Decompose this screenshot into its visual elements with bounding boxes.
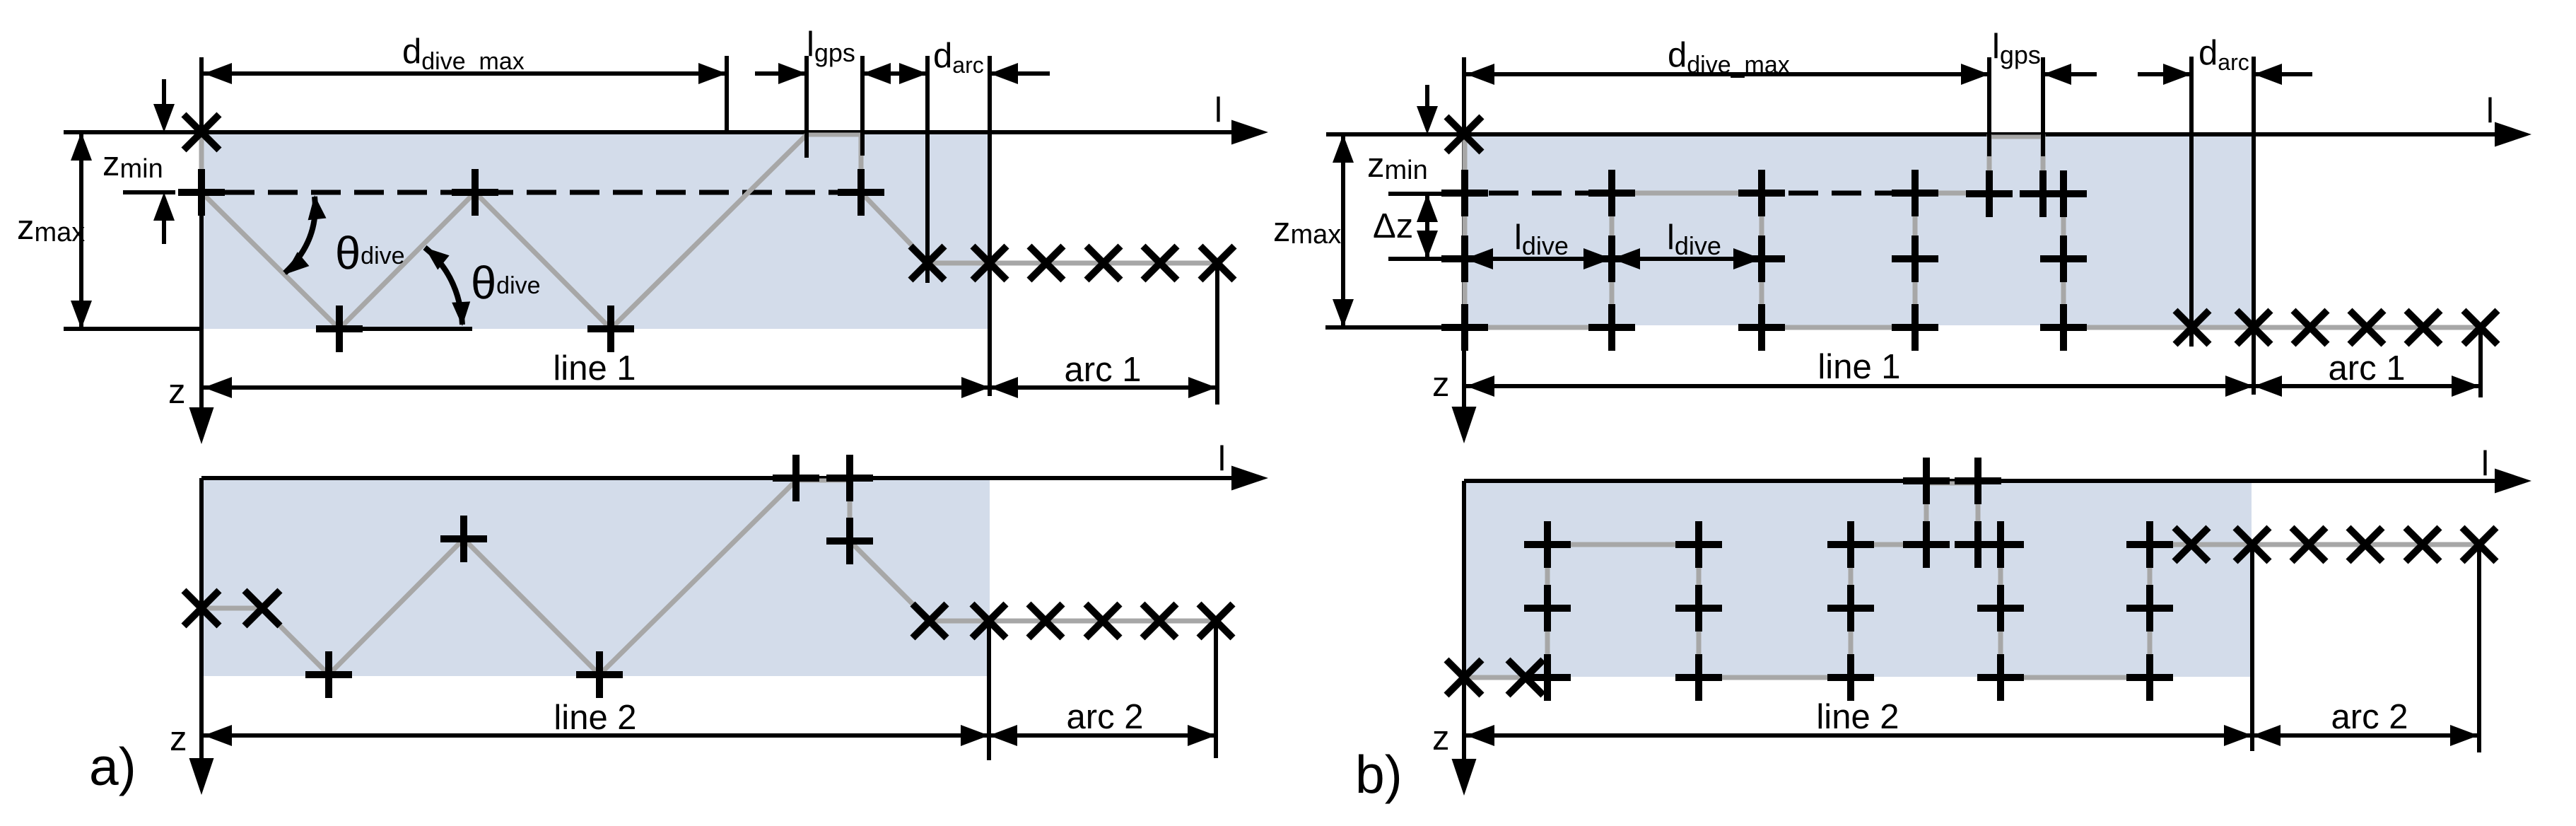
arc 1 drift path (gray, panel a): [927, 261, 1217, 266]
l-axis label (panel b bottom): [2481, 445, 2489, 483]
l-axis label (panel a bottom): [1218, 440, 1226, 478]
z_min dashed depth line (panel a top): [225, 190, 858, 195]
svg-text:zmin: zmin: [1367, 146, 1428, 185]
line 2 extent dimension (panel a bottom): [204, 725, 989, 746]
waypoint + gps surface 2 (panel a bottom): [826, 455, 873, 501]
line2/arc2 boundary line (panel a bottom): [987, 621, 991, 760]
svg-text:zmin: zmin: [103, 145, 163, 184]
d_arc right arrow (panel b top): [2254, 64, 2312, 85]
l_dive label 2 (panel b top): [1667, 219, 1721, 260]
l_gps label (panel b top): [1992, 28, 2041, 69]
arc 1 extent dimension (panel a top): [990, 377, 1217, 398]
waypoint + after gps descent (panel a bottom): [826, 518, 873, 564]
d_arc right boundary line (panel a top): [988, 56, 992, 396]
arc 2 extent dimension (panel b bottom): [2252, 725, 2478, 746]
svg-text:ddive_max: ddive_max: [1668, 36, 1790, 78]
z-axis label (panel a top): [168, 373, 186, 411]
svg-text:darc: darc: [933, 37, 984, 78]
d_dive_max tick (panel a top): [725, 56, 729, 134]
svg-text:zmax: zmax: [1273, 211, 1341, 250]
z-axis (panel a top): [189, 57, 214, 444]
delta-z label (panel b top): [1373, 207, 1413, 245]
waypoint + apex on z_min (panel a top): [452, 169, 498, 216]
shaded survey depth band (line 1, panel b): [1466, 136, 2254, 325]
svg-text:Δz: Δz: [1373, 207, 1413, 245]
delta-z depth tick line (panel b top): [1388, 257, 1492, 261]
d_arc left boundary line (panel a top): [925, 56, 930, 283]
z-axis (panel a bottom): [189, 478, 214, 795]
l_gps label (panel a top): [807, 25, 855, 67]
waypoint + apex (panel a bottom): [440, 516, 487, 562]
l-axis label (panel a top): [1214, 91, 1222, 129]
line 2 extent dimension (panel b bottom): [1466, 725, 2252, 746]
svg-text:arc 1: arc 1: [2329, 349, 2406, 388]
svg-text:l: l: [1218, 440, 1226, 478]
delta-z dimension arrows (panel b top): [1417, 194, 1438, 259]
d_dive_max label (panel a top): [402, 33, 525, 75]
svg-text:z: z: [170, 720, 187, 758]
panel label b): [1355, 745, 1403, 804]
line2/arc2 boundary line (panel b bottom): [2250, 545, 2254, 751]
svg-text:b): b): [1355, 745, 1403, 804]
l_gps right boundary line (panel a top): [860, 56, 865, 156]
waypoint + dive vertex 1 (panel a bottom): [305, 651, 352, 698]
d_arc left arrow (panel b top): [2138, 64, 2191, 85]
z-axis label (panel b top): [1432, 366, 1450, 404]
svg-text:lgps: lgps: [807, 25, 855, 67]
l_gps right boundary line (panel b top): [2041, 57, 2045, 156]
svg-text:z: z: [1432, 366, 1450, 404]
arc 1 extent dimension (panel b top): [2254, 376, 2480, 397]
l_dive dimension span 2 (panel b top): [1612, 248, 1762, 269]
line 1 label (panel a top): [553, 349, 636, 388]
arc 1 right boundary line (panel a top): [1215, 263, 1219, 405]
arc 1 label (panel b top): [2329, 349, 2406, 388]
d_arc label (panel b top): [2199, 34, 2249, 75]
z-axis label (panel b bottom): [1432, 719, 1450, 757]
svg-text:lgps: lgps: [1992, 28, 2041, 69]
svg-text:z: z: [1432, 719, 1450, 757]
l_gps left boundary line (panel a top): [804, 56, 809, 158]
svg-text:darc: darc: [2199, 34, 2249, 75]
arc 2 drift path (gray, panel a): [930, 619, 1216, 624]
z_min dashed depth line (panel b top): [1489, 191, 1915, 196]
z_max label (panel a top): [17, 209, 85, 248]
arc 2 extent dimension (panel a bottom): [989, 725, 1216, 746]
waypoint + dive vertex 2 (panel a top): [587, 306, 634, 352]
line 1 label (panel b top): [1817, 348, 1900, 386]
arc 2 right boundary line (panel a bottom): [1214, 621, 1218, 758]
angle reference line at dive vertex (panel a top): [320, 327, 472, 331]
l-axis (panel b top): [1326, 122, 2531, 147]
waypoint + gps surface 1 (panel a bottom): [773, 455, 819, 501]
svg-text:l: l: [2486, 92, 2494, 130]
z-axis label (panel a bottom): [170, 720, 187, 758]
waypoint + markers square-wave (panel b top): [1441, 170, 2087, 351]
svg-text:arc 2: arc 2: [1067, 698, 1144, 736]
d_arc right boundary line (panel b top): [2252, 57, 2256, 395]
waypoint + dive vertex 1 (panel a top): [316, 306, 363, 352]
arc 2 label (panel a bottom): [1067, 698, 1144, 736]
line 2 label (panel b bottom): [1816, 698, 1899, 736]
l-axis (panel a top): [64, 120, 1268, 145]
waypoint + markers square-wave (panel b bottom): [1524, 458, 2173, 701]
waypoint + after gps descent (panel a top): [838, 169, 884, 216]
panel label a): [89, 737, 136, 796]
d_dive_max dimension line (panel a top): [201, 63, 727, 84]
theta_dive angle arrow 1 (panel a top): [285, 195, 327, 274]
z_min label (panel b top): [1367, 146, 1428, 185]
line 1 extent dimension (panel b top): [1466, 376, 2254, 397]
l_dive dimension span 1 (panel b top): [1465, 248, 1612, 269]
l_dive label 1 (panel b top): [1514, 219, 1569, 260]
l_gps left arrow (panel a top): [755, 63, 807, 84]
line 2 label (panel a bottom): [554, 699, 636, 737]
svg-text:arc 1: arc 1: [1065, 351, 1142, 389]
d_dive_max label (panel b top): [1668, 36, 1790, 78]
svg-text:l: l: [2481, 445, 2489, 483]
z_max dimension arrows (panel a top): [71, 132, 92, 329]
svg-text:line 1: line 1: [553, 349, 636, 388]
arc 2 right boundary line (panel b bottom): [2477, 545, 2481, 752]
svg-text:ddive_max: ddive_max: [402, 33, 525, 75]
glider square-wave trajectory line 1 (gray, panel b): [1465, 134, 2192, 327]
z_min label (panel a top): [103, 145, 163, 184]
X markers along arc 1 (panel b top): [2175, 310, 2498, 344]
svg-text:z: z: [168, 373, 186, 411]
l-axis label (panel b top): [2486, 92, 2494, 130]
z_max depth line (panel a top): [64, 327, 202, 331]
z_min depth tick line (panel a top): [123, 190, 175, 194]
svg-text:a): a): [89, 737, 136, 796]
l-axis (panel b bottom): [1464, 469, 2531, 494]
X start markers (panel b bottom): [1446, 660, 1543, 695]
waypoint + at z_min start (panel a top): [178, 169, 225, 216]
d_dive_max dimension line (panel b top): [1464, 64, 1989, 85]
glider sawtooth trajectory line 1 (gray, panel a): [201, 134, 927, 329]
l_gps / d_arc outer arrows (panel a top): [862, 63, 927, 84]
arc 1 drift path (gray, panel b): [2192, 325, 2481, 330]
z_min dimension arrows (panel b top): [1417, 85, 1438, 134]
d_arc left boundary line (panel b top): [2189, 57, 2194, 347]
d_arc label (panel a top): [933, 37, 984, 78]
svg-text:line 1: line 1: [1817, 348, 1900, 386]
theta_dive label 1 (panel a top): [335, 227, 405, 279]
l_gps right arrow (panel b top): [2043, 64, 2097, 85]
l_gps left boundary line (panel b top): [1987, 57, 1991, 156]
svg-text:zmax: zmax: [17, 209, 85, 248]
svg-text:line 2: line 2: [554, 699, 636, 737]
X start marker at origin (panel a top): [184, 115, 219, 150]
shaded survey depth band (line 2, panel a): [204, 480, 990, 676]
z_min depth tick line (panel b top): [1388, 192, 1487, 196]
z_min dimension arrows (panel a top): [153, 79, 175, 244]
X markers along arc 1 (panel a top): [911, 246, 1234, 280]
theta_dive label 2 (panel a top): [471, 257, 541, 308]
z_max depth line (panel b top): [1325, 325, 1465, 330]
theta_dive angle arrow 2 (panel a top): [425, 248, 470, 326]
shaded survey depth band (line 1, panel a): [204, 134, 990, 329]
z_max label (panel b top): [1273, 211, 1341, 250]
arc 1 label (panel a top): [1065, 351, 1142, 389]
z-axis (panel b top): [1452, 57, 1477, 443]
arc 2 drift path (gray, panel b): [2191, 542, 2479, 547]
z_max dimension arrows (panel b top): [1333, 134, 1354, 327]
line 1 extent dimension (panel a top): [204, 377, 990, 398]
X markers along arc 2 (panel a bottom): [913, 604, 1233, 638]
glider sawtooth trajectory line 2 (gray, panel a): [201, 481, 930, 675]
glider square-wave trajectory line 2 (gray, panel b): [1464, 482, 2191, 677]
svg-text:l: l: [1214, 91, 1222, 129]
X start marker at origin (panel b top): [1446, 117, 1482, 152]
waypoint + dive vertex 2 (panel a bottom): [576, 651, 623, 698]
svg-text:line 2: line 2: [1816, 698, 1899, 736]
z-axis (panel b bottom): [1452, 481, 1477, 796]
shaded survey depth band (line 2, panel b): [1466, 483, 2252, 677]
arc 2 label (panel b bottom): [2331, 698, 2408, 736]
l-axis (panel a bottom): [201, 466, 1268, 491]
X markers along arc 2 (panel b bottom): [2174, 528, 2496, 562]
svg-text:arc 2: arc 2: [2331, 698, 2408, 736]
arc 1 right boundary line (panel b top): [2478, 327, 2483, 397]
d_arc right arrow (panel a top): [990, 63, 1050, 84]
X start markers (panel a bottom): [184, 591, 280, 626]
